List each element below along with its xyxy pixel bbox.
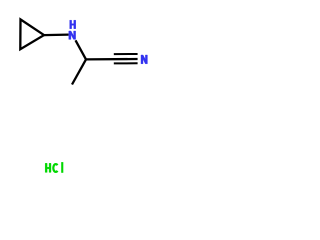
methyl bond C2-CH3	[72, 59, 86, 84]
HCl label	[45, 162, 63, 173]
amine N label	[69, 31, 76, 39]
cyclopropane ring	[20, 19, 44, 49]
amine H label	[70, 20, 76, 29]
bond C1-N	[44, 33, 69, 36]
nitrile N label	[141, 55, 147, 64]
bond N-C2	[76, 40, 87, 59]
nitrile triple bond C3-N	[114, 54, 138, 63]
bond C2-C3	[86, 58, 138, 61]
